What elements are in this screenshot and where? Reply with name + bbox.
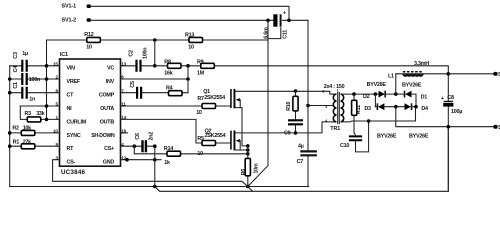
transistor Q1 2SK2554 (203, 89, 248, 146)
pin labels IC1 left (67, 66, 87, 166)
connector SV2-1 output plus (493, 72, 500, 78)
node L1 output junction (447, 72, 451, 76)
svg-text:C9: C9 (284, 130, 291, 136)
node GND stub (125, 158, 129, 162)
resistor R13 10 (185, 33, 203, 51)
wire INV-COMP vertical (187, 66, 189, 93)
resistor R3 33k (25, 111, 45, 122)
svg-text:VREF: VREF (67, 79, 81, 85)
wire R11 to C10 (354, 115, 356, 136)
connector SV1-2 (62, 17, 92, 23)
resistor R9 1M (197, 59, 214, 76)
svg-text:100µ: 100µ (451, 109, 462, 115)
wire C7 bottom to ground rail (307, 106, 309, 187)
svg-text:BYV26E: BYV26E (402, 82, 422, 88)
svg-text:Q1: Q1 (203, 89, 210, 95)
svg-text:C7: C7 (297, 159, 304, 165)
svg-text:10: 10 (188, 44, 194, 50)
svg-text:6,6m: 6,6m (264, 27, 270, 39)
diode D2 BYV26E (363, 91, 396, 101)
svg-text:3: 3 (325, 105, 327, 109)
svg-text:100n: 100n (142, 48, 148, 59)
svg-text:4µ: 4µ (298, 144, 304, 150)
svg-text:L1: L1 (388, 73, 394, 79)
wire C6 ground rail x154.8 (154, 146, 156, 186)
wire COMP row (121, 92, 189, 94)
svg-text:27k: 27k (23, 139, 31, 145)
wire R3 branch (20, 106, 59, 119)
pin numbers IC1 right (121, 61, 126, 160)
wire secondary top (346, 93, 376, 95)
node R6 ground junction (246, 185, 250, 189)
capacitor C9 (284, 120, 303, 136)
svg-text:RT: RT (67, 146, 75, 152)
wire SV1-1 to C11 right (91, 6, 290, 20)
capacitor C2 100n (128, 48, 148, 72)
node SYNC-left-rail (8, 131, 12, 135)
wire VC row right (121, 65, 155, 67)
wire RT row (10, 145, 60, 147)
connector SV1-1 (62, 4, 92, 10)
svg-text:2n2: 2n2 (149, 132, 155, 141)
wire left supply rail x46.5 (46, 40, 48, 119)
wire VIN row (10, 65, 60, 67)
svg-text:D4: D4 (421, 106, 428, 112)
svg-text:C5: C5 (130, 81, 136, 88)
node C9 bottom junction (294, 131, 298, 135)
svg-text:10k: 10k (23, 126, 31, 132)
svg-text:R7: R7 (197, 96, 204, 102)
wire return rail bottom (155, 126, 449, 191)
svg-text:CURLIM: CURLIM (67, 119, 87, 125)
node center tap junction (306, 104, 310, 108)
node INV junction (186, 77, 190, 81)
node CURLIM-rail (45, 118, 49, 122)
wire INV row (121, 78, 189, 80)
svg-text:C3: C3 (13, 52, 19, 59)
capacitor C10 (340, 136, 362, 149)
svg-text:C1: C1 (13, 82, 19, 89)
inductor L1 3.3mH (388, 61, 448, 79)
svg-text:1M: 1M (197, 71, 205, 77)
diode D1 BYV26E (396, 91, 427, 107)
svg-text:VIN: VIN (67, 66, 76, 72)
svg-text:10: 10 (196, 110, 202, 116)
svg-text:R11: R11 (356, 105, 362, 114)
svg-text:100n: 100n (29, 77, 40, 83)
node NI-rail (45, 104, 49, 108)
resistor R4 (166, 85, 182, 95)
wire center tap (308, 105, 333, 107)
node C8 minus junction (447, 125, 451, 129)
wire sense node to R6 (247, 146, 249, 159)
svg-text:R2: R2 (12, 126, 19, 132)
svg-text:1k: 1k (164, 160, 170, 166)
node C11 right junction (287, 19, 291, 23)
wire ground rail bottom (10, 186, 309, 188)
node C11 left junction (266, 19, 270, 23)
node R8-R9-INV junction (186, 64, 190, 68)
wire Q2 drain to transformer bottom (235, 122, 335, 133)
capacitor C3 1u (13, 51, 28, 72)
wire CS+ row (121, 145, 155, 147)
diode D3 BYV26E (364, 103, 395, 112)
wire VREF row (10, 78, 60, 80)
svg-text:10m: 10m (254, 163, 260, 173)
svg-text:10: 10 (86, 45, 92, 51)
diode D4 BYV26E (396, 103, 428, 112)
node VIN-rail (45, 64, 49, 68)
wire bridge center down to minus rail (396, 107, 493, 127)
wire junction down to VC node (154, 40, 156, 66)
node Q2 source junction (246, 148, 250, 152)
resistor R8 16k (164, 59, 181, 76)
capacitor C11 6,6m (264, 11, 289, 39)
svg-text:C2: C2 (128, 50, 134, 57)
wire CS+ jog to R14 (134, 146, 248, 154)
wire secondary bottom (346, 107, 416, 122)
svg-text:IC1: IC1 (60, 52, 68, 58)
svg-text:SH-DOWN: SH-DOWN (91, 133, 115, 139)
wire feedback rail to output (214, 66, 448, 101)
wire R10 leads (295, 91, 297, 119)
node CS+ junction (133, 144, 137, 148)
svg-text:BYV26E: BYV26E (409, 133, 429, 139)
wire C11 right to power drop (283, 20, 308, 105)
wire NI row (20, 105, 59, 107)
svg-text:33k: 33k (36, 111, 44, 117)
svg-text:CS-: CS- (67, 160, 76, 166)
capacitor C6 2n2 (135, 132, 155, 152)
svg-text:+: + (283, 11, 286, 17)
resistor R6 10m (241, 158, 259, 175)
svg-text:C4: C4 (13, 66, 19, 73)
wire output plus (448, 73, 493, 75)
svg-text:VC: VC (107, 66, 114, 72)
node R12-R13 junction (153, 38, 157, 42)
wire OUTA row to gate (121, 105, 231, 107)
svg-text:GND: GND (103, 160, 115, 166)
IC op-amp controller U1 box (60, 52, 121, 176)
capacitor C5 (130, 81, 141, 99)
svg-text:CT: CT (67, 93, 75, 99)
svg-text:NI: NI (67, 106, 73, 112)
node RT-left-rail (8, 144, 12, 148)
svg-text:OUTB: OUTB (100, 119, 115, 125)
wire bridge left vertical (374, 94, 376, 107)
svg-text:R10: R10 (286, 102, 292, 111)
svg-text:1: 1 (337, 88, 339, 92)
wire CT row (10, 92, 60, 94)
wire SV1-2 to C11 left (91, 19, 274, 21)
svg-text:UC3846: UC3846 (61, 169, 86, 176)
node Q1 source junction (246, 144, 250, 148)
svg-text:BYV26E: BYV26E (377, 133, 397, 139)
node bridge bottom-right (414, 105, 418, 109)
wire supply row y40 (47, 39, 269, 41)
wire R6 to ground rail (247, 176, 249, 187)
svg-text:2SK2554: 2SK2554 (205, 133, 226, 139)
svg-text:C8: C8 (447, 95, 454, 101)
svg-text:C6: C6 (135, 133, 141, 140)
svg-text:SYNC: SYNC (67, 133, 81, 139)
svg-text:+: + (441, 96, 444, 102)
node GND-rail (153, 158, 157, 162)
wire left ground rail x11 (9, 66, 11, 187)
node VC-C2 junction (153, 64, 157, 68)
svg-text:SV1-1: SV1-1 (62, 4, 77, 10)
svg-text:D3: D3 (364, 106, 371, 112)
wire diagonal R6 to return rail (248, 187, 253, 192)
svg-text:C11: C11 (283, 30, 289, 39)
node C10-secondary junction (367, 119, 371, 123)
wire SH-DOWN stub (121, 132, 128, 134)
wire GND row (121, 159, 162, 161)
wire C10 loop to secondary bottom (356, 121, 369, 152)
wire Q1 drain to transformer (235, 91, 335, 94)
svg-text:SV1-2: SV1-2 (62, 17, 77, 23)
node C6-rail ground junction (153, 185, 157, 189)
resistor R5 10 (197, 136, 215, 157)
svg-text:D1: D1 (421, 95, 428, 101)
svg-text:2SK2554: 2SK2554 (204, 95, 225, 101)
node bridge top-left (374, 92, 378, 96)
resistor R7 10 (196, 96, 215, 116)
wire CS- route (53, 160, 248, 187)
wire bridge center to L1 (395, 74, 397, 94)
node R14-R6 junction (246, 152, 250, 156)
capacitor C1 1n (13, 82, 35, 103)
node CT-left-rail (8, 91, 12, 95)
wire C9 to Q2 drain wire (295, 125, 297, 133)
capacitor C8 100u (441, 95, 463, 115)
svg-text:3.3mH: 3.3mH (414, 61, 429, 67)
resistor R10 (286, 96, 298, 111)
node R10 top junction (294, 89, 298, 93)
connector SV2-2 output minus (493, 125, 500, 131)
svg-text:2: 2 (322, 89, 324, 93)
transistor Q2 2SK2554 (205, 128, 248, 150)
wire C8 bottom to minus rail (447, 107, 449, 192)
svg-text:1µ: 1µ (22, 51, 28, 57)
svg-text:1n: 1n (29, 97, 35, 103)
svg-text:BYV26E: BYV26E (367, 82, 387, 88)
svg-text:16k: 16k (164, 71, 172, 77)
svg-text:INV: INV (106, 79, 115, 85)
svg-text:COMP: COMP (99, 93, 115, 99)
node VREF-left-rail (8, 77, 12, 81)
pin numbers IC1 left (53, 61, 58, 160)
svg-text:R1: R1 (13, 139, 20, 145)
svg-text:OUTA: OUTA (100, 106, 114, 112)
wire R8 to R9 (155, 65, 201, 67)
resistor R1 27k (13, 139, 35, 148)
node bridge bottom-center (394, 105, 398, 109)
node R11 top junction (352, 92, 356, 96)
capacitor C4 100n (13, 66, 40, 85)
wire SYNC row (10, 132, 60, 134)
wire OUTB row jog to R5 (121, 119, 231, 143)
node VREF-rail (45, 77, 49, 81)
transformer TR1 (322, 84, 346, 132)
pin labels IC1 right (91, 66, 115, 166)
resistor R12 10 (84, 32, 100, 51)
node bridge top-center (394, 92, 398, 96)
svg-text:D2: D2 (363, 94, 370, 100)
svg-text:CS+: CS+ (104, 146, 114, 152)
node C6 right junction (153, 144, 157, 148)
resistor R2 10k (12, 126, 34, 136)
svg-text:2x4 : 150: 2x4 : 150 (324, 84, 345, 90)
wire SV1-2 ground drop (248, 20, 268, 186)
resistor R14 1k (164, 146, 181, 166)
svg-text:TR1: TR1 (330, 126, 340, 132)
resistor R11 (352, 94, 362, 115)
capacitor C7 4u (297, 144, 317, 166)
svg-text:C10: C10 (340, 143, 349, 149)
